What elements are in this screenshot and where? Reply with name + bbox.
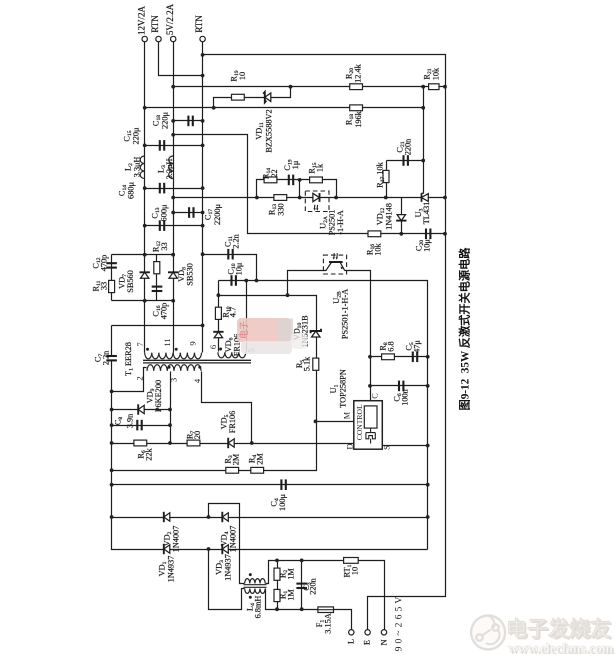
svg-text:P6KE200: P6KE200 [154,380,163,412]
label VD11 BZX5588V2 [254,109,273,152]
svg-text:2.2n: 2.2n [231,233,240,248]
wire C4 bulk cap line [112,484,428,486]
svg-text:1M: 1M [286,568,295,580]
label VD9 P6KE200 [145,380,163,412]
transformer bias winding 6-5 [218,352,246,358]
capacitor C19 [289,175,293,186]
svg-text:CONTROL: CONTROL [355,404,364,440]
terminal RTN 2 [200,36,205,41]
wire VD6 R10 chain [218,296,220,352]
svg-text:3.3μH: 3.3μH [132,157,141,178]
label VD6 FR106 [224,334,242,357]
zener diode VD11 [263,92,271,102]
svg-text:10μ: 10μ [422,239,431,252]
resistor R7 [187,440,200,446]
label C11 2.2n [223,233,240,248]
resistor R12 [154,262,160,274]
svg-text:5V/2.2A: 5V/2.2A [165,3,175,35]
wire C10 left drop [218,281,220,296]
label VD12 1N4148 [375,203,393,230]
inductor L3 [169,156,174,179]
label R7 20 [185,431,202,440]
svg-text:22: 22 [270,169,279,177]
capacitor C20 [426,229,430,240]
svg-text:M: M [342,411,351,419]
zener diode VD10 [311,329,321,337]
label R14 22 [261,168,279,179]
watermark pink blob [237,318,307,354]
terminal 5V/2.2A [171,36,176,41]
svg-text:600μ: 600μ [159,204,168,221]
svg-text:BZX5588V2: BZX5588V2 [264,109,273,152]
svg-text:1N4148: 1N4148 [384,203,393,230]
capacitor C3 [296,584,307,588]
wire C15 branch [145,145,203,147]
label VD3 1N4937 [214,554,232,581]
wire primary pin2 to DC+ [112,368,147,392]
label U1 [329,384,340,393]
label C10 10u [226,262,243,275]
diode VD4 [222,512,228,522]
wire C20 branch [402,233,446,235]
svg-text:10: 10 [238,72,247,80]
capacitor C18 [188,116,192,127]
capacitor C12 [106,263,117,267]
capacitor C16 [152,287,163,291]
label TOP258PN value [338,369,347,408]
wire VD12 branch [401,198,403,234]
label L2 3.3uH [123,157,141,178]
label C14 680u [117,182,135,199]
diode VD7 [140,272,150,278]
transformer polarity dots [146,348,222,369]
svg-text:470p: 470p [159,303,168,320]
svg-text:电子: 电子 [238,321,249,339]
wire opto emitter to C pin [345,271,371,401]
wire feedback main line [174,197,446,199]
terminal L [349,630,354,635]
wire R12 C16 snubber chain [156,255,158,301]
label L3 3.3uH [156,159,174,180]
terminal N [381,630,386,635]
svg-text:3.9n: 3.9n [125,413,134,428]
label U2B part no [340,289,349,339]
svg-text:SB530: SB530 [185,263,194,286]
IC U1 TOP258PN CONTROL block [354,401,383,450]
label R1 1M [278,589,295,601]
svg-text:47μ: 47μ [412,340,421,353]
wire C17 branch [174,212,203,214]
label U2B [332,291,343,304]
thermistor RT1 [344,558,359,564]
terminal RTN 1 [156,36,161,41]
TVS diode VD9 [138,404,144,414]
capacitor C17 [189,207,193,218]
svg-text:1N4007: 1N4007 [228,526,237,553]
svg-text:100μ: 100μ [278,494,287,511]
optocoupler U2A LED [305,191,329,212]
label VD8 SB530 [177,263,195,286]
svg-text:-1-H-A: -1-H-A [336,210,345,234]
diode VD12 [396,215,406,221]
label C8 3.9n [113,413,134,428]
wire R1 R2 bleeder column [277,561,279,610]
capacitor C8 [137,420,141,431]
capacitor C7 [106,356,117,360]
svg-text:10μ: 10μ [234,262,243,275]
label C16 470p [151,303,168,320]
wire divider node column [423,87,425,161]
capacitor C13 [160,220,164,231]
wire choke lower to F1 to L [266,589,352,630]
capacitor C5 [413,352,417,363]
inductor L2 [140,156,145,179]
resistor R13 [274,195,287,201]
wire R17 branch [386,161,388,198]
svg-text:4: 4 [192,378,202,383]
diode VD8 [168,272,178,278]
svg-text:2: 2 [134,376,144,380]
resistor R6 [134,440,147,446]
svg-text:220n: 220n [403,138,412,155]
wire C8 clamp branch [112,425,171,427]
diode VD2 [164,512,170,522]
wire 5V output rail [173,42,175,353]
label C5 47u [404,340,421,353]
wire C7 top lead [111,326,113,356]
wire C14 branch [145,188,203,190]
wire primary DC+ rail to bridge bottom line [112,361,428,550]
wire 12V feedback line R18 [145,107,424,109]
label R8 6.8 [378,341,395,351]
label C20 10u [414,239,431,252]
wire opto collector lead [288,271,327,296]
label R3 2M [223,453,240,465]
svg-text:680μ: 680μ [126,182,135,199]
label T1 EER28 [124,342,135,376]
label C13 600u [150,204,168,221]
svg-text:TL431: TL431 [422,202,431,225]
resistor R21 [429,84,439,90]
svg-text:N: N [379,640,388,646]
diode VD5 [228,438,234,448]
resistor R1 [274,589,280,601]
resistor R8 [382,354,395,360]
svg-text:C: C [370,393,379,399]
svg-text:3.3μH: 3.3μH [165,159,174,180]
wire C10 line to source rail [219,281,428,550]
svg-text:4.7: 4.7 [228,307,237,317]
svg-text:10k: 10k [373,242,382,255]
svg-text:10k: 10k [431,67,440,80]
terminal E [365,630,370,635]
wire C13 branch [145,225,203,227]
capacitor C15 [160,140,164,151]
label R10 4.7 [221,306,237,317]
capacitor C10 [232,275,236,286]
label C4 100u [269,494,287,511]
label R16 10k [365,242,382,255]
resistor R19 [232,94,245,100]
wire C19 junction drop [299,180,301,198]
label C12 470p [91,255,108,272]
resistor R11 [109,280,115,292]
resistor R20 [350,84,363,90]
svg-text:RTN: RTN [150,15,160,33]
svg-text:6: 6 [208,344,218,349]
svg-text:SB560: SB560 [126,270,135,293]
wire 12V output rail [144,42,146,353]
svg-text:33: 33 [99,282,108,290]
resistor R10 [215,307,221,319]
label 12V/2A [136,6,146,36]
common mode choke L4 [244,579,267,594]
wire RTN to E rail [203,55,446,630]
label R4 2M [247,453,264,465]
label R13 330 [267,203,285,215]
svg-text:6.8: 6.8 [386,341,395,351]
svg-text:2.2n: 2.2n [101,350,110,365]
wire choke upper to RT1 to N [266,561,385,630]
svg-text:5.1k: 5.1k [302,356,311,371]
wire C21 branch [387,160,424,162]
label C7 2.2n [93,350,110,365]
wire RTN rail [202,42,204,353]
label R5 5.1k [295,356,312,371]
svg-text:D: D [345,444,354,450]
label R11 33 [91,280,108,291]
transformer secondary winding 7-11 [145,353,173,359]
svg-text:RTN: RTN [194,15,204,33]
svg-text:10: 10 [350,567,359,575]
svg-text:PS2501-1-H-A: PS2501-1-H-A [340,289,349,339]
svg-text:1M: 1M [286,589,295,601]
svg-text:22k: 22k [144,447,153,460]
svg-text:196k: 196k [354,110,363,127]
transformer pin numbers [134,338,256,383]
svg-text:20: 20 [193,431,202,439]
wire R6 R7 VD5 to D pin line [112,443,354,445]
label R18 196k [344,110,363,127]
label C21 220n [395,138,412,155]
label U3 TL431 [414,202,431,225]
wire AC1 jumper to choke upper [209,504,245,584]
wire snubber bottom line [112,300,174,302]
wire S pin line [383,445,428,447]
wire C3 column [301,561,303,610]
label VD10 1N5231B [292,315,309,348]
diode VD6 [213,332,223,338]
wire R8 C5 branch [371,356,428,358]
wire pin4 to drain [202,372,252,444]
capacitor C11 [228,249,232,260]
wire C18 branch [174,120,203,122]
wire pin3 clamp column [170,372,172,444]
svg-text:电子发烧友: 电子发烧友 [506,617,611,641]
label U2A PS2501-1-H-A [318,210,345,236]
choke polarity dots [249,573,252,599]
wire snubber top line [112,254,174,256]
svg-text:1N4007: 1N4007 [171,526,180,553]
label R12 33 [151,241,169,252]
svg-text:www.elecfans.com: www.elecfans.com [508,641,614,656]
label VD7 SB560 [117,270,135,293]
wire R19 VD11 branch [214,87,291,108]
label L [346,639,355,644]
label C19 1u [283,159,300,170]
resistor R3 [226,467,239,473]
svg-text:220μ: 220μ [131,127,140,144]
svg-text:2M: 2M [255,453,264,465]
label 5V/2.2A [165,3,175,35]
label F1 3.15A [315,613,333,634]
svg-text:12V/2A: 12V/2A [136,6,146,36]
svg-text:2200μ: 2200μ [213,203,222,225]
resistor R17 [383,170,389,182]
wire bridge top line [112,517,428,519]
optocoupler U2B phototransistor [323,253,346,274]
wire 5V feedback line R20 [174,86,446,88]
svg-text:TOP258PN: TOP258PN [338,369,347,408]
label C3 220n [302,577,318,594]
svg-text:3: 3 [169,378,179,382]
wire bias node to VD10 R5 M column and R3 R4 line [112,296,317,471]
wire AC2 to choke lower [209,550,245,610]
wire C12 R11 snubber chain [111,255,113,301]
svg-text:470p: 470p [99,255,108,272]
label VD2 1N4007 [162,526,180,553]
svg-text:7: 7 [135,342,145,347]
svg-text:9: 9 [187,341,197,345]
resistor R18 [350,105,363,111]
svg-text:图9-12 35W 反激式开关电源电路: 图9-12 35W 反激式开关电源电路 [458,247,472,411]
terminal 12V/2A [142,36,147,41]
resistor R16 [368,231,381,237]
svg-text:1k: 1k [315,163,324,172]
label L4 6.8mH [245,596,262,619]
svg-text:6.8mH: 6.8mH [253,596,262,619]
svg-text:S: S [382,445,391,450]
shunt regulator U3 TL431 [422,161,429,202]
wire C6 branch [371,385,428,387]
wire 5V to R16 line [174,135,402,234]
label N [379,640,388,646]
label VD5 FR106 [219,411,237,434]
wire C11 branch [203,255,257,281]
svg-text:330: 330 [276,203,285,215]
label R2 1M [278,568,295,580]
svg-text:1N4937: 1N4937 [223,554,232,581]
label RTN 2 [194,15,204,33]
pin labels U1 [342,393,391,450]
label C15 220u [122,127,140,144]
label R20 12.4k [344,63,362,83]
label R21 10k [422,67,440,80]
svg-text:E: E [363,640,372,645]
label C17 2200u [203,203,222,225]
capacitor C14 [160,183,164,194]
transformer T1 EER28 core [143,360,251,363]
capacitor C21 [404,155,408,166]
svg-text:L: L [346,639,355,644]
label C18 220u [151,112,169,129]
svg-text:11: 11 [162,338,172,346]
wire VD9 clamp branch [112,409,171,411]
watermark elecfans logo [471,616,615,658]
svg-text:2M: 2M [231,453,240,465]
label R6 22k [136,447,153,460]
diode VD3 [222,544,228,554]
svg-text:1μ: 1μ [291,160,300,169]
capacitor C6 [399,381,403,392]
wire M pin line [316,421,354,423]
transformer primary winding 2-4 [147,365,201,371]
label R19 10 [229,70,247,81]
svg-text:12.4k: 12.4k [353,63,362,83]
svg-text:FR106: FR106 [228,411,237,434]
svg-text:100n: 100n [400,388,409,405]
label VD4 1N4007 [219,526,237,553]
resistor R14 [264,177,277,183]
label VD1 1N4937 [157,556,175,583]
label C6 100n [392,388,409,405]
resistor R5 [313,358,319,370]
resistor R4 [251,467,264,473]
svg-text:220μ: 220μ [160,112,169,129]
svg-text:3.15A: 3.15A [323,613,332,634]
resistor R2 [274,568,280,580]
label E [363,640,372,645]
capacitor C4 [281,479,285,490]
svg-text:1N4937: 1N4937 [166,556,175,583]
label RTN 1 [150,15,160,33]
svg-text:33: 33 [160,242,169,250]
diode VD1 [164,544,170,554]
svg-text:220n: 220n [309,577,318,594]
transformer secondary winding 11-9 [173,353,201,359]
label RT1 10 [342,564,359,577]
resistor R15 [310,177,323,183]
label R17 10k [375,161,386,188]
svg-text:90~265V: 90~265V [393,594,404,652]
wire RTN terminal 1 link [159,42,203,76]
wire R14 C19 R15 branch [257,180,337,198]
fuse F1 [318,607,334,613]
label R15 1k [307,162,324,173]
wire bias winding pin5 lead [246,281,248,352]
wire Y-capacitor link C7 [112,325,203,327]
